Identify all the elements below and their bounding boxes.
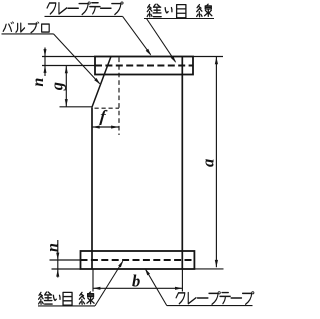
- label kurepu-tepu top: [45, 2, 124, 17]
- bottom seam dashed line: [81, 259, 195, 261]
- char fu: [112, 4, 121, 15]
- char nui: [147, 4, 161, 17]
- svg-text:g: g: [47, 82, 66, 91]
- char ru: [16, 23, 25, 32]
- top tape box: [95, 57, 193, 75]
- svg-text:n: n: [44, 243, 61, 252]
- svg-text:n: n: [30, 78, 47, 87]
- body right edge: [181, 57, 183, 270]
- leader to bottom seam: [95, 261, 123, 306]
- leader to top seam line: [147, 19, 176, 62]
- label kurepu-tepu bottom: [167, 292, 254, 306]
- valve slant fold: [92, 57, 111, 108]
- char te: [220, 293, 230, 304]
- svg-text:b: b: [132, 272, 140, 291]
- label nuimesen bottom: [38, 292, 95, 306]
- char me: [63, 292, 72, 305]
- char fu: [209, 293, 218, 304]
- body left edge: [91, 108, 93, 269]
- char bu: [28, 24, 36, 33]
- dim g: [65, 66, 67, 107]
- char bar: [101, 7, 112, 9]
- char nui: [39, 292, 53, 304]
- char sen: [79, 292, 94, 304]
- leader to top tape: [123, 16, 151, 54]
- ext a top: [193, 56, 223, 58]
- char ba: [3, 24, 11, 31]
- ext top seam left: [42, 65, 95, 67]
- char me: [177, 5, 186, 18]
- char re: [188, 293, 196, 304]
- top seam dashed line: [95, 65, 193, 67]
- leader to bottom tape: [146, 270, 167, 306]
- dim f: [92, 126, 118, 128]
- svg-text:a: a: [199, 159, 218, 167]
- char kuchi: [42, 24, 50, 32]
- ext top tape top-left: [42, 56, 95, 58]
- char i: [53, 295, 60, 300]
- char fu: [243, 293, 252, 304]
- bottom tape box: [81, 251, 195, 269]
- ext a bottom: [194, 268, 223, 270]
- dim n top: [44, 48, 46, 77]
- char bar: [197, 297, 208, 299]
- char bar: [68, 7, 79, 9]
- valve hidden fold vertical dashed: [118, 58, 120, 136]
- label nuimesen top: [144, 4, 214, 18]
- valve hidden bottom dashed: [95, 107, 120, 109]
- ext bottom seam left: [50, 259, 81, 261]
- ext b left stub: [92, 270, 94, 292]
- char sen: [197, 4, 212, 17]
- dim a: [215, 57, 217, 267]
- char ku: [47, 3, 56, 14]
- ext g bottom: [60, 106, 92, 108]
- ext b right stub: [181, 270, 183, 292]
- char i: [165, 8, 172, 13]
- dim b: [93, 287, 182, 289]
- leader to valve slant: [54, 34, 100, 84]
- label barubu-guchi: [2, 22, 54, 34]
- char bar: [231, 297, 242, 299]
- dim n bottom: [57, 240, 59, 278]
- char fu: [79, 4, 88, 15]
- char re: [59, 3, 67, 14]
- char ku: [176, 293, 185, 304]
- char te: [90, 3, 100, 14]
- ext bottom tape bottom-left: [52, 268, 81, 270]
